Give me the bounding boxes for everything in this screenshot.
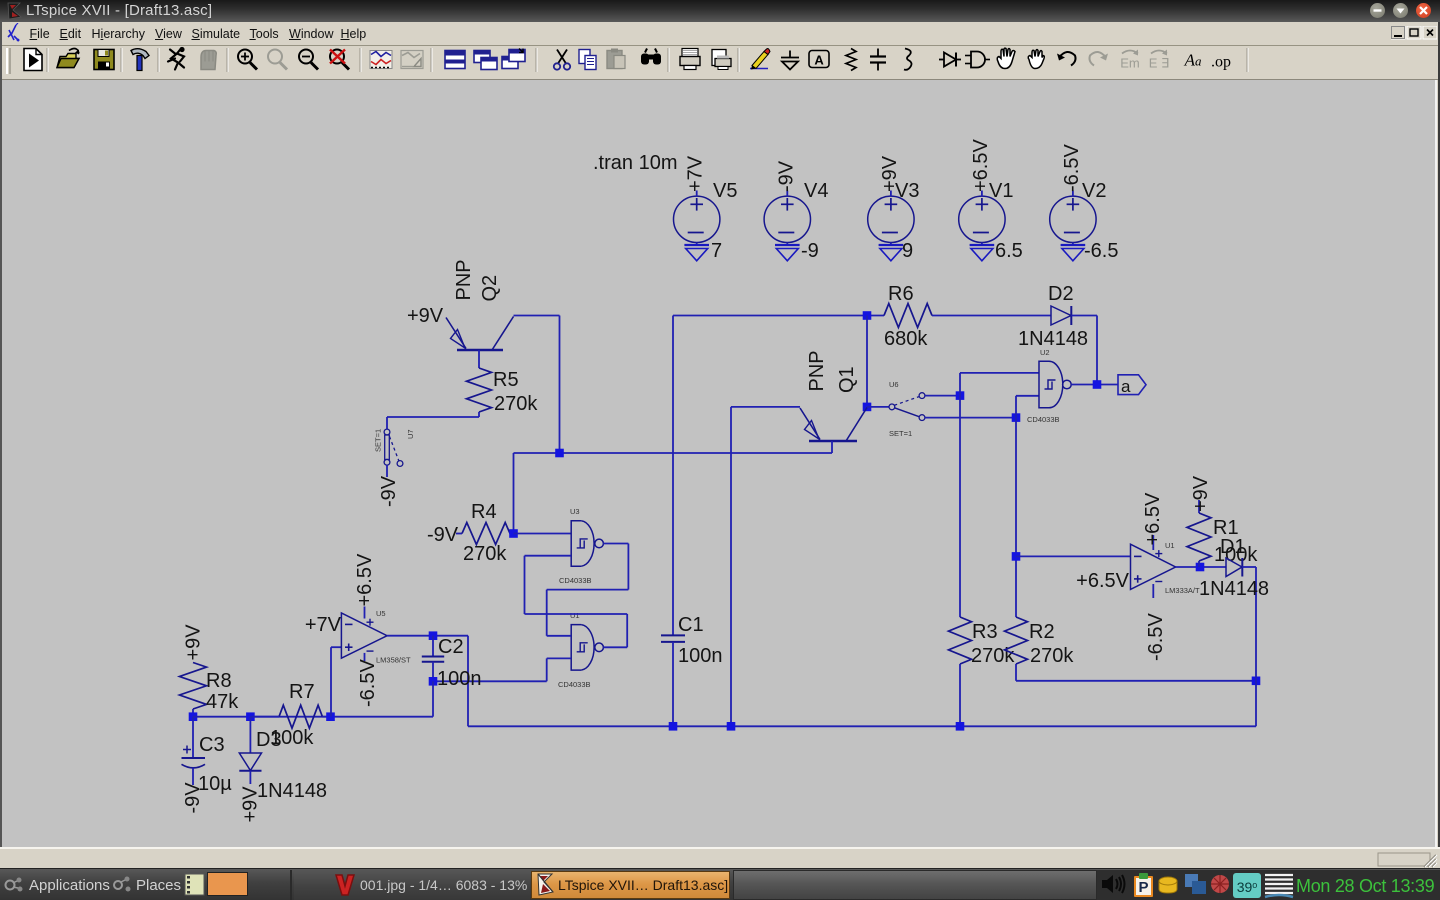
svg-text:100n: 100n	[678, 645, 723, 667]
junction R8/C3 node	[189, 712, 198, 721]
toolbar zoom-out icon	[299, 50, 318, 70]
toolbar edit-symbol icon (disabled)	[1149, 50, 1170, 71]
svg-text:CD4033B: CD4033B	[1027, 415, 1060, 424]
svg-text:+6.5V: +6.5V	[1142, 492, 1164, 545]
toolbar component (gate) icon	[965, 52, 990, 68]
svg-text:Q1: Q1	[836, 366, 858, 393]
toolbar spice-directive icon	[1211, 54, 1231, 71]
system tray	[1100, 872, 1130, 900]
svg-text:-9V: -9V	[182, 782, 204, 814]
toolbar control-panel hammer icon	[131, 49, 149, 71]
switch U6	[889, 393, 925, 421]
ground below V2	[1061, 245, 1086, 261]
svg-text:+6.5V: +6.5V	[1076, 570, 1129, 592]
junction U6 lower node	[1012, 413, 1021, 422]
ground below V5	[684, 245, 709, 261]
wire R5 bottom to switch U7	[387, 416, 479, 418]
wire to U1 minus input	[1016, 555, 1131, 557]
svg-text:1N4148: 1N4148	[257, 780, 327, 802]
svg-text:PNP: PNP	[453, 259, 475, 300]
svg-text:U5: U5	[376, 609, 386, 618]
svg-text:PNP: PNP	[806, 350, 828, 391]
wire node to Q1 base	[514, 452, 833, 454]
wire C2 bottom to U1 input B	[433, 680, 547, 682]
svg-text:U3: U3	[570, 507, 580, 516]
desktop taskbar	[0, 868, 1440, 900]
resistor R1	[1187, 513, 1211, 561]
svg-text:V2: V2	[1082, 180, 1106, 202]
wire U3 output across	[547, 589, 629, 591]
svg-text:6.5: 6.5	[995, 240, 1023, 262]
wire R8 bottom lead	[192, 709, 194, 717]
wire node down to R3	[959, 396, 961, 617]
junction D3 node	[246, 712, 255, 721]
NAND gate U1 (CD4033B)	[571, 625, 603, 671]
toolbar zoom-back icon (disabled)	[268, 50, 287, 70]
wire down to U1 input A	[546, 590, 548, 636]
svg-text:LM358/ST: LM358/ST	[376, 656, 411, 665]
svg-text:+7V: +7V	[685, 155, 707, 192]
wire R7 left lead	[250, 716, 279, 718]
toolbar move (open hand) icon	[997, 48, 1015, 68]
taskbar window button: image viewer	[334, 873, 356, 897]
wire D1 cathode	[1242, 566, 1256, 568]
wire R2 to right node	[1016, 680, 1256, 682]
wire R4 left lead	[456, 533, 462, 535]
wire U6 lower contact to node	[925, 417, 1016, 419]
svg-text:CD4033B: CD4033B	[559, 576, 592, 585]
wire C2 bottom lead	[432, 662, 434, 682]
svg-text:-6.5V: -6.5V	[1061, 144, 1083, 192]
wire node up to U5 plus input	[330, 647, 332, 717]
resistor R4	[462, 523, 510, 545]
svg-text:+9V: +9V	[879, 155, 901, 192]
wire U2 input B stub	[1016, 395, 1039, 397]
resistor R7	[279, 705, 322, 728]
wire R1 bottom lead	[1198, 561, 1200, 567]
wire R2 bottom lead	[1015, 664, 1017, 681]
junction Q2 collector node	[555, 449, 564, 458]
wire D2 down to output node	[1096, 316, 1098, 385]
svg-text:-9V: -9V	[775, 160, 797, 192]
wire into U3 input B	[525, 555, 572, 557]
svg-text:-6.5: -6.5	[1084, 240, 1118, 262]
toolbar capacitor icon	[870, 49, 886, 71]
resistor R3	[949, 617, 972, 664]
svg-text:.tran 10m: .tran 10m	[593, 152, 677, 174]
wire bottom node horizontal	[193, 716, 433, 718]
svg-text:SET=1: SET=1	[374, 429, 383, 452]
resistor R6	[884, 304, 932, 328]
junction R7 output node	[326, 712, 335, 721]
svg-text:+6.5V: +6.5V	[354, 553, 376, 606]
svg-text:-6.5V: -6.5V	[357, 659, 379, 707]
svg-text:D1: D1	[1220, 536, 1246, 558]
wire D1 corner down	[1255, 567, 1257, 681]
junction R1/D1 node	[1196, 563, 1205, 572]
svg-text:CD4033B: CD4033B	[558, 680, 591, 689]
svg-text:+9V: +9V	[183, 624, 205, 661]
menu bar	[2, 22, 1438, 46]
op-amp U5	[341, 607, 387, 662]
wire R6 to D2	[932, 315, 1051, 317]
svg-text:V4: V4	[804, 180, 828, 202]
toolbar undo icon	[1057, 52, 1076, 66]
svg-text:U1: U1	[1165, 541, 1175, 550]
svg-text:Q2: Q2	[479, 275, 501, 302]
junction R6 left node	[863, 311, 872, 320]
wire Q1 base lead	[831, 441, 833, 453]
toolbar save icon	[94, 50, 114, 70]
svg-text:+9V: +9V	[1190, 475, 1212, 512]
svg-text:-9V: -9V	[378, 475, 400, 507]
wire corner down to node	[559, 316, 561, 454]
wire U6 upper contact to node	[925, 395, 960, 397]
ground below V4	[775, 245, 800, 261]
svg-text:D2: D2	[1048, 283, 1074, 305]
svg-text:47k: 47k	[206, 691, 239, 713]
svg-text:+9V: +9V	[407, 305, 444, 327]
status bar	[0, 847, 1440, 868]
svg-text:Em: Em	[1120, 56, 1140, 71]
wire U1 output	[603, 646, 627, 648]
junction Q1 collector node	[863, 403, 872, 412]
toolbar cut icon	[554, 50, 570, 70]
wire Q2 base lead	[478, 350, 480, 368]
wire C2 node down	[432, 681, 434, 716]
transistor Q2	[446, 317, 514, 351]
toolbar open icon	[57, 49, 79, 68]
svg-text:.op: .op	[1211, 54, 1231, 71]
svg-text:P: P	[1138, 879, 1148, 896]
resistor R5	[467, 368, 492, 412]
toolbar new-schematic icon	[24, 49, 42, 71]
wire R6 node down to Q1 node	[866, 316, 868, 407]
diode D1	[1226, 558, 1242, 577]
svg-text:R6: R6	[888, 283, 914, 305]
wire C1 vertical	[672, 316, 674, 636]
NAND gate U3 (CD4033B)	[571, 521, 603, 567]
wire U2 output	[1071, 384, 1118, 386]
toolbar redo icon (disabled)	[1090, 52, 1109, 66]
wire C1 top horizontal	[673, 315, 884, 317]
svg-text:C3: C3	[199, 734, 225, 756]
diode D3	[239, 753, 261, 771]
transistor Q1	[800, 408, 867, 442]
output port node a	[1118, 375, 1146, 396]
toolbar run icon	[168, 47, 185, 70]
svg-text:100n: 100n	[437, 668, 482, 690]
svg-text:270k: 270k	[463, 543, 507, 565]
toolbar	[2, 46, 1438, 80]
wire R4 node to U3 input A	[514, 533, 572, 535]
wire U5 output	[387, 635, 468, 637]
wire U1 gate input B stub	[547, 657, 571, 659]
switch U7	[384, 429, 403, 466]
wire Q2 collector to corner	[514, 315, 560, 317]
svg-text:680k: 680k	[884, 328, 928, 350]
wire Q1 emitter horizontal	[731, 406, 800, 408]
svg-text:9: 9	[902, 240, 913, 262]
wire R4 right lead	[510, 533, 514, 535]
toolbar print-preview icon	[712, 50, 731, 70]
junction U6 upper node	[956, 391, 965, 400]
svg-text:+9V: +9V	[240, 786, 262, 823]
NAND gate U2 (CD4033B)	[1039, 361, 1071, 408]
svg-text:R4: R4	[471, 501, 497, 523]
junction C2 bottom node	[429, 677, 438, 686]
wire C3 bottom lead	[192, 768, 194, 786]
wire D2 cathode	[1071, 315, 1097, 317]
wire D3 bottom lead	[249, 771, 251, 784]
op-amp U1	[1131, 535, 1176, 598]
wire R1 top lead	[1198, 500, 1200, 513]
wire D3 top lead	[249, 717, 251, 753]
wire R7 right lead	[322, 716, 330, 718]
svg-text:U1: U1	[570, 611, 580, 620]
svg-text:+6.5V: +6.5V	[970, 139, 992, 192]
wire U3 output down	[627, 544, 629, 590]
svg-text:100k: 100k	[270, 727, 314, 749]
toolbar text icon	[1184, 51, 1202, 70]
toolbar diode icon	[939, 53, 961, 67]
wire into U1 input A	[547, 635, 571, 637]
svg-text:R2: R2	[1029, 621, 1055, 643]
toolbar wire (pencil) icon	[750, 49, 770, 70]
toolbar copy icon	[579, 50, 596, 70]
svg-text:C1: C1	[678, 614, 704, 636]
svg-text:A: A	[814, 53, 824, 68]
wire C2 top lead	[432, 636, 434, 657]
toolbar drag (hand) icon	[1028, 50, 1044, 69]
svg-text:U2: U2	[1040, 348, 1050, 357]
svg-text:R3: R3	[972, 621, 998, 643]
toolbar zoom-fit icon	[330, 50, 349, 70]
capacitor C2	[422, 657, 444, 662]
resistor R8	[180, 663, 207, 710]
svg-text:1N4148: 1N4148	[1018, 328, 1088, 350]
svg-text:-9V: -9V	[427, 524, 459, 546]
wire U1 output	[1176, 566, 1226, 568]
diode D2	[1051, 306, 1071, 325]
wire C3 top lead	[192, 717, 194, 758]
wire Q1 emitter down to rail	[730, 407, 732, 726]
svg-text:V5: V5	[713, 180, 737, 202]
wire R3 bottom lead	[959, 664, 961, 726]
toolbar inductor icon	[904, 49, 912, 70]
wire node up	[959, 373, 961, 396]
taskbar window button: LTspice (active)	[531, 871, 730, 899]
voltage source V5	[674, 191, 720, 246]
toolbar print icon	[680, 49, 700, 70]
voltage source V3	[868, 191, 914, 246]
toolbar zoom-in icon	[238, 50, 257, 70]
wire right node down to rail	[1255, 681, 1257, 727]
svg-text:Aa: Aa	[1184, 51, 1202, 70]
svg-text:R7: R7	[289, 681, 315, 703]
toolbar waveform icon	[370, 51, 392, 69]
junction right feedback node	[1252, 677, 1261, 686]
wire U1 output up	[626, 614, 628, 647]
voltage source V4	[764, 191, 810, 246]
wire R5 bottom stub	[478, 412, 480, 417]
toolbar waveform icon 2 (disabled)	[401, 51, 423, 69]
wire node to U6 pole	[867, 406, 889, 408]
wire C1 bottom lead	[672, 642, 674, 726]
ground below V1	[970, 245, 995, 261]
wire U2 input B down	[1015, 396, 1017, 418]
wire U5 output corner down to rail	[467, 636, 469, 727]
toolbar edit-schematic icon (disabled)	[1120, 50, 1140, 71]
toolbar tile-horizontal icon	[445, 51, 465, 69]
svg-text:R8: R8	[206, 670, 232, 692]
svg-text:U6: U6	[889, 380, 899, 389]
junction rail / Q1 emitter	[727, 722, 736, 731]
toolbar tile-vertical icon	[502, 49, 525, 69]
svg-text:7: 7	[711, 240, 722, 262]
toolbar paste icon (disabled)	[607, 49, 625, 69]
svg-text:R5: R5	[493, 369, 519, 391]
svg-text:+7V: +7V	[305, 614, 342, 636]
svg-text:E ∃: E ∃	[1149, 56, 1170, 71]
wire U1 input B down	[546, 658, 548, 681]
svg-text:V1: V1	[989, 180, 1013, 202]
application title bar	[0, 0, 1440, 22]
capacitor C1	[661, 635, 685, 642]
svg-text:a: a	[1121, 377, 1131, 396]
toolbar cascade icon	[474, 51, 497, 70]
toolbar halt icon (disabled)	[201, 51, 216, 70]
wire bottom rail	[468, 725, 1256, 727]
toolbar find icon	[641, 49, 661, 65]
toolbar label icon	[809, 51, 829, 68]
wire into U5 plus input	[331, 646, 341, 648]
resistor R2	[1005, 617, 1028, 664]
junction U2 output node a	[1093, 380, 1102, 389]
wire U3 output	[603, 543, 628, 545]
svg-text:LM333A/T: LM333A/T	[1165, 586, 1200, 595]
svg-text:-9: -9	[801, 240, 819, 262]
toolbar resistor icon	[846, 49, 856, 71]
svg-text:SET=1: SET=1	[889, 429, 912, 438]
toolbar ground icon	[781, 51, 799, 70]
junction rail / C1	[669, 722, 678, 731]
svg-text:C2: C2	[438, 636, 464, 658]
wire R4 vertical from node	[513, 453, 515, 534]
wire U7 bottom lead	[386, 465, 388, 477]
svg-text:270k: 270k	[1030, 645, 1074, 667]
wire U7 top lead	[386, 417, 388, 430]
wire U1 output across	[525, 613, 628, 615]
wire to U2 input A	[960, 372, 1039, 374]
svg-text:1N4148: 1N4148	[1199, 578, 1269, 600]
wire node down to R2	[1015, 418, 1017, 617]
svg-text:270k: 270k	[494, 393, 538, 415]
svg-text:-6.5V: -6.5V	[1145, 613, 1167, 661]
svg-text:U7: U7	[406, 429, 415, 439]
voltage source V2	[1050, 191, 1096, 246]
ground below V3	[879, 245, 904, 261]
junction U5 output / C2 top	[429, 631, 438, 640]
junction R4 output node	[509, 529, 518, 538]
wire up to U3 input B	[524, 556, 526, 614]
capacitor C3 (polarized)	[182, 746, 206, 768]
junction R2/minus-input node	[1012, 552, 1021, 561]
junction rail / R3	[956, 722, 965, 731]
voltage source V1	[959, 191, 1005, 246]
